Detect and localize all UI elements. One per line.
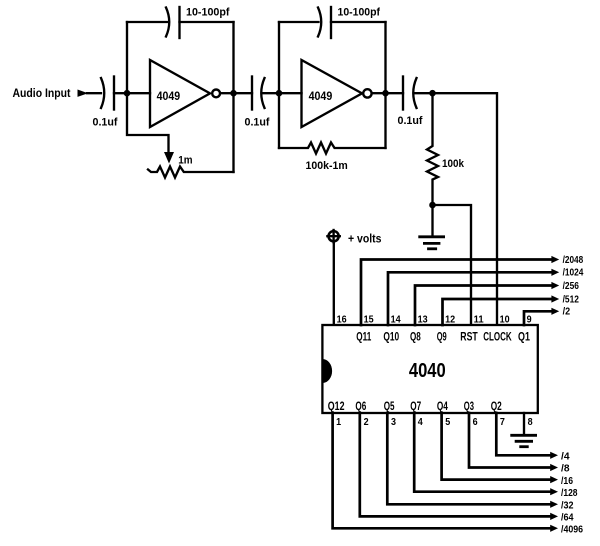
svg-text:/128: /128 bbox=[561, 488, 578, 499]
wire stage2 feedback left vertical bbox=[278, 22, 280, 148]
inverter U1 4049 bbox=[150, 60, 220, 127]
pin label Q7 bbox=[410, 400, 421, 413]
label U3 4040 bbox=[409, 360, 446, 382]
svg-text:10-100pf: 10-100pf bbox=[186, 7, 230, 19]
svg-text:1m: 1m bbox=[178, 155, 192, 167]
svg-text:Q6: Q6 bbox=[355, 400, 366, 413]
node D (U2 output junction) bbox=[382, 90, 389, 97]
wire /4096 output from pin bbox=[333, 413, 558, 532]
wire audio arrow to C1 bbox=[87, 92, 101, 94]
+volts supply symbol bbox=[327, 230, 339, 242]
wire /16 output from pin bbox=[442, 413, 558, 483]
capacitor C5 0.1uf bbox=[403, 77, 417, 110]
svg-text:14: 14 bbox=[391, 315, 401, 326]
wire C1 to node A bbox=[114, 92, 127, 94]
svg-text:100k-1m: 100k-1m bbox=[306, 160, 348, 172]
ground G2 bbox=[510, 435, 537, 446]
pin 12 number bbox=[445, 315, 455, 326]
wire /1024 output from pin bbox=[388, 269, 559, 325]
pin label Q11 bbox=[356, 331, 371, 344]
label U2 4049 bbox=[309, 90, 333, 103]
resistor R1 1m body bbox=[148, 167, 234, 178]
label Audio Input bbox=[13, 86, 71, 100]
label /16 bbox=[561, 476, 573, 487]
pin 9 number bbox=[527, 315, 532, 326]
pin 8 number bbox=[528, 417, 533, 428]
svg-text:3: 3 bbox=[391, 417, 396, 428]
svg-text:9: 9 bbox=[527, 315, 532, 326]
wire stage2 feedback top right segment bbox=[331, 21, 386, 23]
wire /4 output from pin bbox=[496, 413, 558, 459]
svg-text:/4096: /4096 bbox=[561, 525, 583, 536]
svg-text:7: 7 bbox=[500, 417, 505, 428]
svg-text:8: 8 bbox=[528, 417, 533, 428]
wire node C to U2 input bbox=[279, 92, 302, 94]
capacitor C3 0.1uf bbox=[252, 77, 265, 110]
svg-text:6: 6 bbox=[473, 417, 478, 428]
svg-text:Q1: Q1 bbox=[518, 331, 530, 344]
pin 6 number bbox=[473, 417, 478, 428]
label C5 0.1uf bbox=[398, 115, 423, 127]
label R1 1m bbox=[178, 155, 192, 167]
pin label Q2 bbox=[491, 400, 502, 413]
pin label Q10 bbox=[383, 331, 399, 344]
inverter U2 4049 bbox=[302, 60, 372, 127]
wire node F to RST pin 11 bbox=[433, 205, 472, 325]
label C1 0.1uf bbox=[93, 117, 118, 129]
svg-text:Q7: Q7 bbox=[410, 400, 421, 413]
label R3 100k bbox=[442, 158, 465, 170]
svg-text:16: 16 bbox=[337, 315, 347, 326]
wire U2 output to node D bbox=[373, 92, 386, 94]
pin label Q9 bbox=[437, 331, 447, 344]
wire /512 output from pin bbox=[443, 295, 560, 325]
label /256 bbox=[563, 281, 580, 292]
label /4 bbox=[561, 452, 570, 463]
wire /64 output from pin bbox=[360, 413, 558, 520]
svg-text:Q12: Q12 bbox=[328, 400, 345, 413]
wire node F to ground bbox=[431, 205, 433, 236]
svg-text:12: 12 bbox=[445, 315, 455, 326]
svg-text:0.1uf: 0.1uf bbox=[93, 117, 118, 129]
svg-text:15: 15 bbox=[364, 315, 374, 326]
wire C5 to node E bbox=[415, 92, 433, 94]
capacitor C4 10-100pf bbox=[318, 7, 331, 38]
pin label CLOCK bbox=[483, 331, 512, 344]
svg-text:Q2: Q2 bbox=[491, 400, 502, 413]
pin 4 number bbox=[418, 417, 423, 428]
pin label Q8 bbox=[410, 331, 421, 344]
wire stage1 feedback top right segment bbox=[180, 21, 234, 23]
IC U3 4040 body bbox=[322, 325, 537, 413]
svg-text:10-100pf: 10-100pf bbox=[338, 7, 381, 19]
pin 5 number bbox=[445, 417, 450, 428]
wire /2048 output from pin bbox=[361, 256, 559, 325]
wire /32 output from pin bbox=[387, 413, 558, 508]
label /8 bbox=[561, 464, 570, 475]
svg-text:11: 11 bbox=[474, 315, 484, 326]
wire stage2 feedback top left segment bbox=[279, 21, 319, 23]
wire node B to C3 bbox=[234, 92, 253, 94]
label U1 4049 bbox=[157, 90, 181, 103]
pin 7 number bbox=[500, 417, 505, 428]
label /1024 bbox=[563, 268, 584, 279]
node C (U2 input junction) bbox=[276, 90, 283, 97]
pin 14 number bbox=[391, 315, 401, 326]
wire node E to CLOCK pin 10 bbox=[433, 93, 498, 325]
svg-text:Q5: Q5 bbox=[384, 400, 395, 413]
label C3 0.1uf bbox=[245, 117, 270, 129]
svg-text:1: 1 bbox=[336, 417, 341, 428]
wire pin 8 to ground bbox=[523, 413, 525, 434]
pin label Q3 bbox=[464, 400, 475, 413]
pin label Q5 bbox=[384, 400, 395, 413]
svg-text:2: 2 bbox=[364, 417, 369, 428]
svg-text:+ volts: + volts bbox=[348, 232, 382, 245]
label + volts bbox=[348, 232, 382, 245]
pin 1 number bbox=[336, 417, 341, 428]
pin label Q4 bbox=[437, 400, 448, 413]
pin 2 number bbox=[364, 417, 369, 428]
pin label Q1 bbox=[518, 331, 530, 344]
pin 11 number bbox=[474, 315, 484, 326]
resistor R2 100k-1m feedback bbox=[279, 143, 386, 154]
svg-text:4049: 4049 bbox=[309, 90, 333, 103]
svg-text:Q9: Q9 bbox=[437, 331, 447, 344]
svg-text:/64: /64 bbox=[561, 513, 574, 524]
svg-text:/16: /16 bbox=[561, 476, 573, 487]
wire stage1 feedback top left segment bbox=[127, 21, 167, 23]
pin 16 number bbox=[337, 315, 347, 326]
svg-text:CLOCK: CLOCK bbox=[483, 331, 512, 344]
label /2048 bbox=[563, 255, 584, 266]
svg-text:/2: /2 bbox=[563, 307, 571, 318]
svg-text:/512: /512 bbox=[563, 294, 580, 305]
wire U1 output to node B bbox=[221, 92, 233, 94]
label /512 bbox=[563, 294, 580, 305]
wire stage1 right vertical node B to R1 bbox=[232, 22, 234, 172]
node F (R3 bottom junction) bbox=[429, 202, 436, 209]
wire +volts to pin 16 bbox=[333, 242, 335, 325]
label C2 10-100pf bbox=[186, 7, 230, 19]
pin 15 number bbox=[364, 315, 374, 326]
wire node A to U1 input bbox=[127, 92, 150, 94]
pin label Q12 bbox=[328, 400, 345, 413]
label /64 bbox=[561, 513, 574, 524]
node A (U1 input junction) bbox=[124, 90, 131, 97]
capacitor C1 0.1uf bbox=[101, 77, 114, 110]
label R2 100k-1m bbox=[306, 160, 348, 172]
svg-text:/8: /8 bbox=[561, 464, 570, 475]
svg-text:4049: 4049 bbox=[157, 90, 181, 103]
pin label RST bbox=[460, 331, 478, 344]
svg-text:10: 10 bbox=[500, 315, 510, 326]
ground G1 bbox=[418, 237, 445, 249]
svg-text:Q8: Q8 bbox=[410, 331, 421, 344]
pin 10 number bbox=[500, 315, 510, 326]
label C4 10-100pf bbox=[338, 7, 381, 19]
wire /8 output from pin bbox=[469, 413, 558, 471]
svg-text:5: 5 bbox=[445, 417, 450, 428]
node B (U1 output junction) bbox=[230, 90, 237, 97]
label /32 bbox=[561, 501, 574, 512]
pin label Q6 bbox=[355, 400, 366, 413]
wire stage1 feedback left vertical bbox=[126, 22, 128, 93]
pin 13 number bbox=[418, 315, 428, 326]
svg-text:RST: RST bbox=[460, 331, 478, 344]
svg-text:13: 13 bbox=[418, 315, 428, 326]
pin 3 number bbox=[391, 417, 396, 428]
wire node D to C5 bbox=[386, 92, 404, 94]
label /4096 bbox=[561, 525, 583, 536]
svg-text:/2048: /2048 bbox=[563, 255, 584, 266]
wire /2 output from pin bbox=[524, 308, 559, 325]
label /2 bbox=[563, 307, 571, 318]
svg-text:/32: /32 bbox=[561, 501, 574, 512]
svg-text:Q11: Q11 bbox=[356, 331, 371, 344]
svg-text:0.1uf: 0.1uf bbox=[245, 117, 270, 129]
svg-text:0.1uf: 0.1uf bbox=[398, 115, 423, 127]
svg-text:Audio Input: Audio Input bbox=[13, 86, 71, 100]
wire node A down to R1 wiper bbox=[127, 93, 169, 152]
potentiometer R1 wiper arrow bbox=[164, 152, 174, 164]
svg-text:4: 4 bbox=[418, 417, 423, 428]
node E (clock junction) bbox=[429, 90, 436, 97]
svg-text:Q4: Q4 bbox=[437, 400, 448, 413]
svg-text:Q3: Q3 bbox=[464, 400, 475, 413]
wire /128 output from pin bbox=[414, 413, 558, 495]
svg-text:100k: 100k bbox=[442, 158, 465, 170]
svg-text:/1024: /1024 bbox=[563, 268, 584, 279]
wire /256 output from pin bbox=[415, 282, 559, 325]
label /128 bbox=[561, 488, 578, 499]
wire stage2 right vertical node D to R2 bbox=[384, 22, 386, 148]
svg-text:Q10: Q10 bbox=[383, 331, 399, 344]
wire C3 to node C bbox=[263, 92, 279, 94]
svg-text:/4: /4 bbox=[561, 452, 570, 463]
audio input arrow bbox=[78, 90, 89, 97]
svg-text:/256: /256 bbox=[563, 281, 580, 292]
capacitor C2 10-100pf bbox=[166, 7, 180, 38]
svg-text:4040: 4040 bbox=[409, 360, 446, 382]
resistor R3 100k bbox=[427, 93, 438, 205]
